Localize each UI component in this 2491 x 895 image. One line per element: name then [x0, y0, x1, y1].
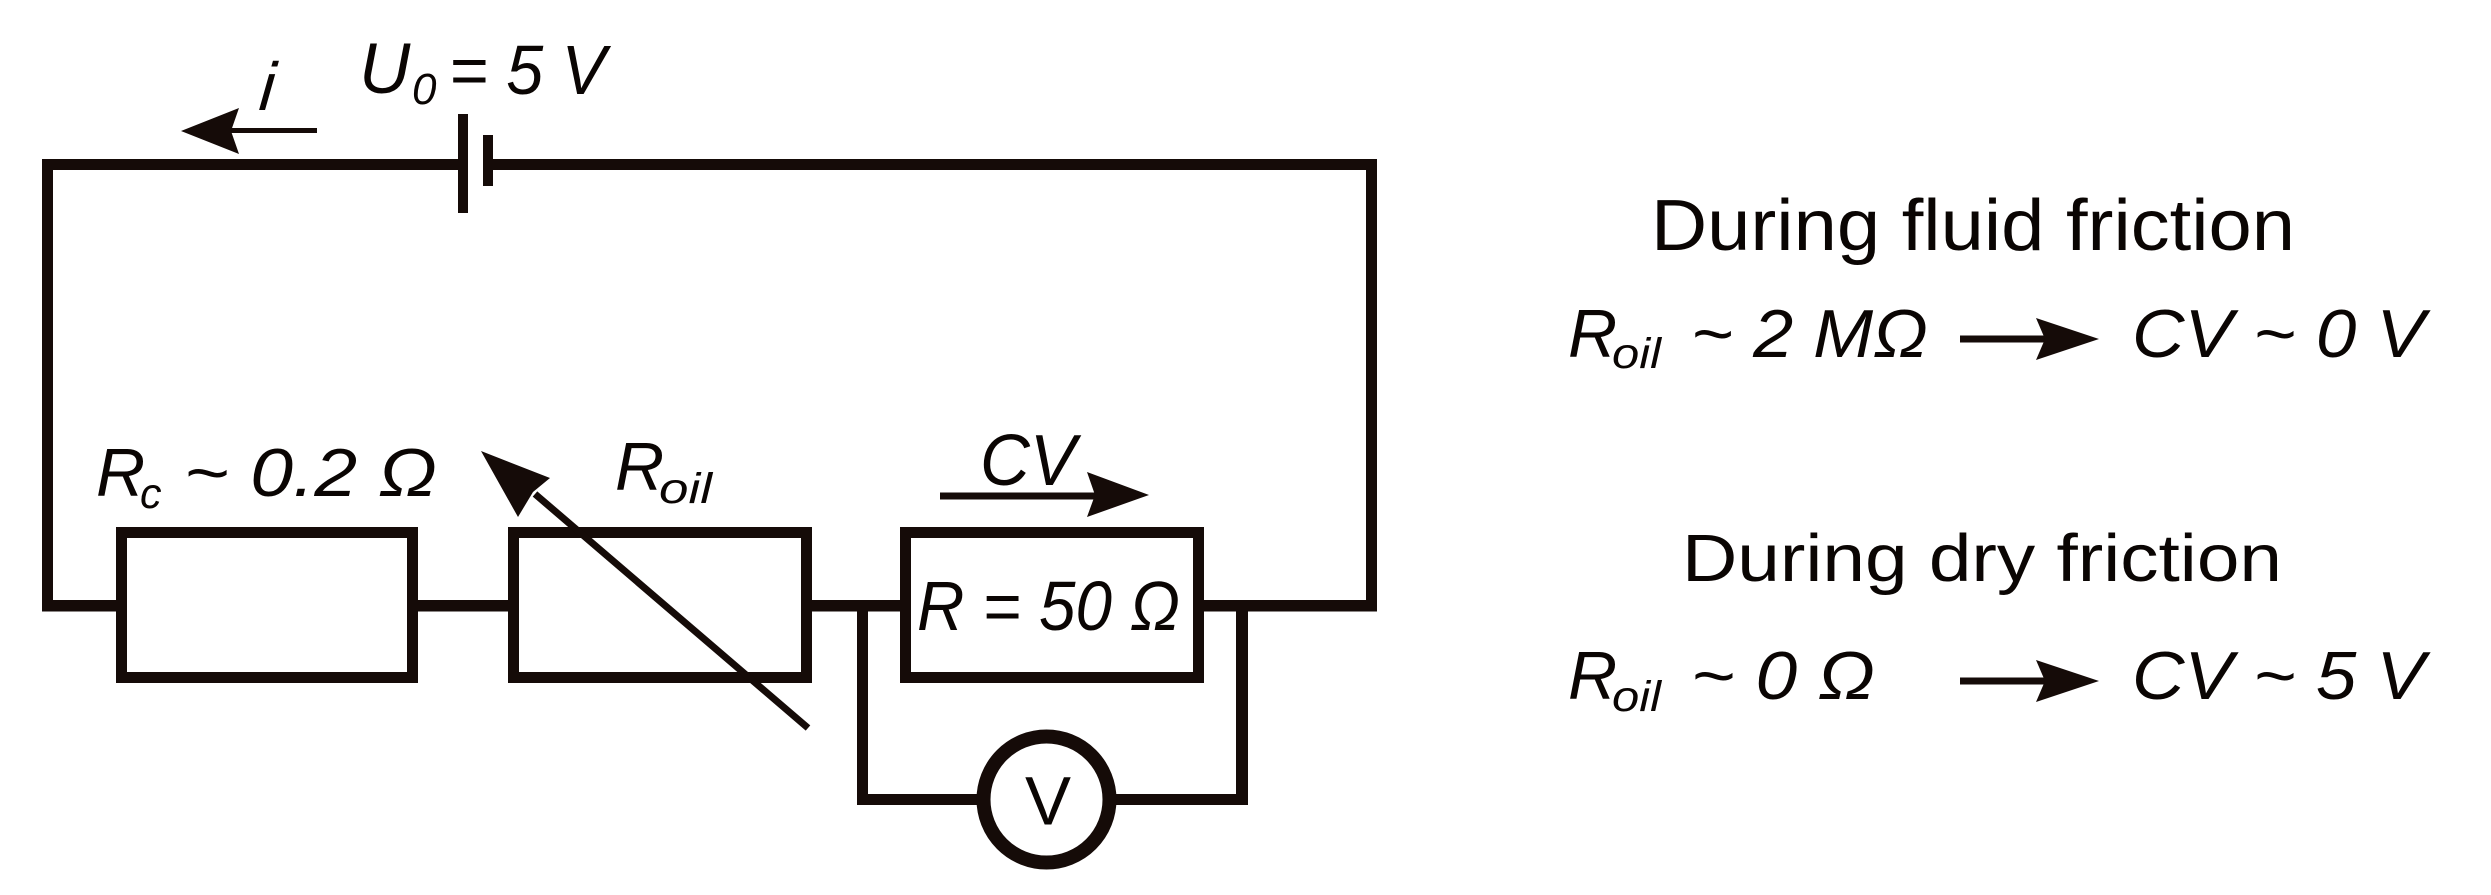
svg-text:i: i: [257, 49, 281, 125]
svg-text:U: U: [359, 30, 411, 109]
svg-text:During fluid friction: During fluid friction: [1651, 186, 2295, 266]
svg-text:R = 50 Ω: R = 50 Ω: [917, 567, 1180, 645]
svg-text:c: c: [140, 470, 162, 518]
svg-text:R: R: [1568, 638, 1617, 714]
svg-text:~ 2 MΩ: ~ 2 MΩ: [1691, 296, 1928, 372]
svg-text:CV ~ 0 V: CV ~ 0 V: [2132, 296, 2431, 372]
svg-text:CV ~ 5 V: CV ~ 5 V: [2132, 638, 2431, 714]
svg-text:oil: oil: [1612, 673, 1663, 721]
svg-text:0: 0: [412, 65, 437, 114]
svg-text:oil: oil: [659, 465, 714, 513]
svg-text:R: R: [1568, 296, 1617, 372]
svg-text:~ 0 Ω: ~ 0 Ω: [1691, 638, 1875, 714]
svg-text:R: R: [615, 429, 664, 505]
svg-text:~ 0.2 Ω: ~ 0.2 Ω: [184, 435, 437, 511]
svg-text:= 5 V: = 5 V: [449, 31, 612, 109]
svg-text:V: V: [1025, 763, 1071, 840]
svg-text:CV: CV: [980, 421, 1082, 501]
svg-text:oil: oil: [1612, 330, 1663, 378]
svg-text:During dry friction: During dry friction: [1682, 521, 2282, 596]
svg-text:R: R: [96, 435, 145, 511]
